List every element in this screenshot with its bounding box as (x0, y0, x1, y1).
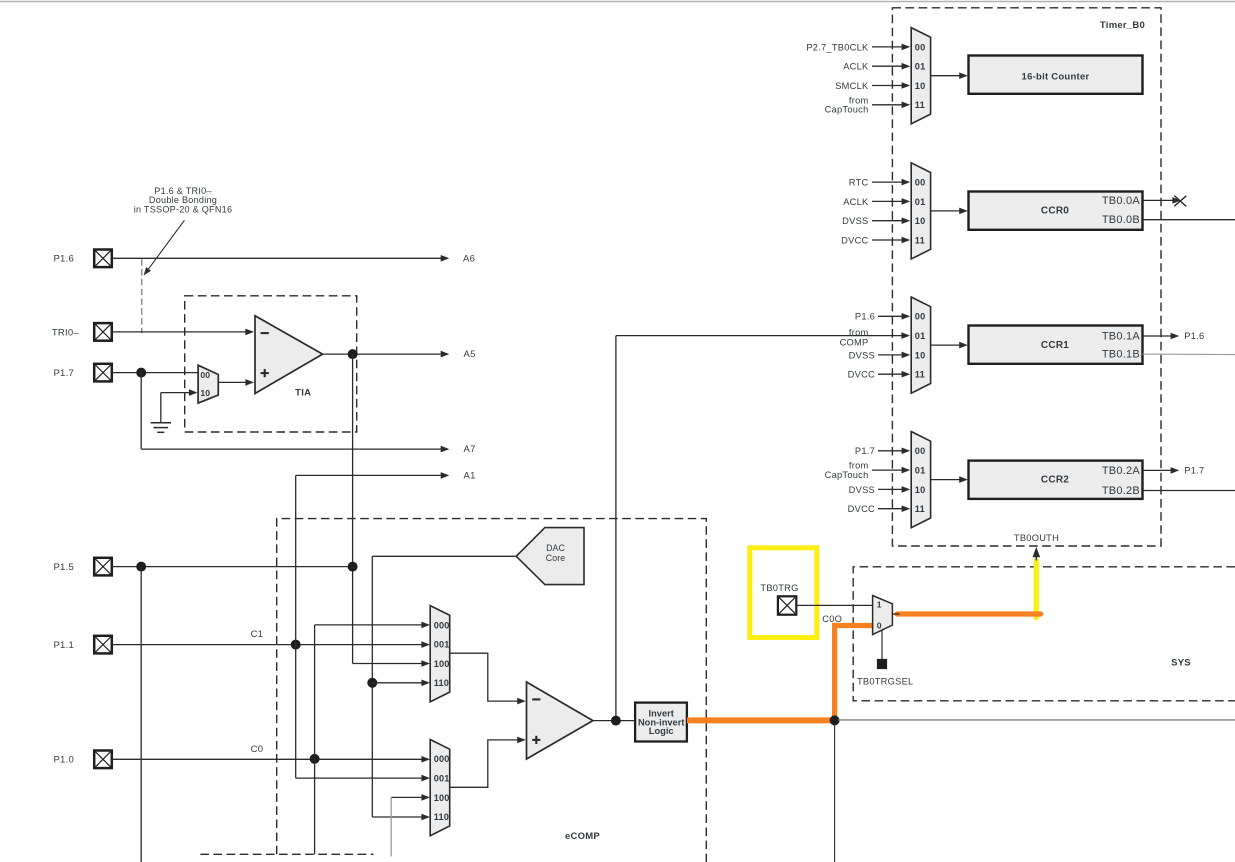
wire TB0.2B out (1143, 490, 1235, 492)
mux M1 TB0CLK select (911, 28, 930, 124)
svg-text:TB0.0A: TB0.0A (1102, 195, 1141, 207)
svg-text:1: 1 (877, 600, 882, 610)
svg-text:10: 10 (915, 485, 926, 495)
wire P1.6 to M3 (855, 312, 910, 322)
svg-text:SYS: SYS (1171, 658, 1191, 669)
block outline Timer_B0 (892, 8, 1161, 546)
svg-text:DVCC: DVCC (841, 235, 868, 245)
svg-text:TB0TRG: TB0TRG (760, 583, 798, 593)
svg-text:P1.5: P1.5 (53, 562, 74, 573)
comparator U5 (eCOMP) (527, 682, 593, 759)
junction P1.5/TIA net (348, 562, 358, 572)
svg-text:ACLK: ACLK (843, 62, 869, 72)
pin P1.5 (53, 558, 111, 576)
net label from COMP (840, 327, 869, 347)
junction comparator output (611, 716, 621, 726)
mux M4 CCR2 input select (911, 432, 930, 528)
mux U2 (TIA + input select) (198, 365, 218, 403)
annotation leader arrow (144, 220, 185, 275)
wire DVSS to M3 (849, 350, 911, 360)
wire DVCC to M4 (848, 504, 911, 514)
wire M3 to CCR1 (931, 342, 968, 349)
svg-text:C0: C0 (251, 744, 264, 755)
logic block Invert/Non-invert (635, 703, 687, 742)
block outline TIA (185, 296, 357, 432)
highlight orange wire C0O output (687, 626, 873, 724)
wire upper mux output to comparator - (450, 653, 526, 704)
svg-text:DVSS: DVSS (849, 485, 875, 495)
pin TB0TRG (760, 583, 798, 615)
svg-text:Logic: Logic (649, 726, 674, 736)
svg-text:10: 10 (915, 350, 926, 360)
svg-text:TRI0–: TRI0– (52, 327, 80, 338)
svg-text:01: 01 (915, 62, 926, 72)
wire TIA output to A5 (323, 351, 450, 358)
svg-text:DVCC: DVCC (848, 504, 875, 514)
junction C0O (830, 715, 840, 725)
wire C1 up to A1 (296, 472, 450, 644)
svg-text:0: 0 (877, 620, 882, 630)
svg-text:TB0.2B: TB0.2B (1102, 485, 1140, 497)
wire TIA output down to eCOMP mux (353, 354, 430, 667)
wire P1.7 to A7 (141, 373, 449, 453)
wire TB0.1B out (gray) (1143, 353, 1235, 356)
wire RTC to M2 (849, 178, 910, 188)
junction DAC net (367, 678, 377, 688)
svg-text:01: 01 (915, 197, 926, 207)
svg-text:DVSS: DVSS (849, 350, 875, 360)
DAC core (516, 528, 584, 585)
highlight yellow box around TB0TRG (750, 548, 817, 638)
wire M4 to CCR2 (931, 476, 968, 483)
annotation note: double bonding (134, 186, 233, 215)
svg-text:DAC: DAC (546, 543, 565, 553)
svg-text:DVSS: DVSS (842, 216, 868, 226)
svg-text:10: 10 (915, 81, 926, 91)
svg-text:11: 11 (915, 235, 925, 245)
wire M1 to counter (931, 72, 968, 79)
net label C0 (251, 744, 264, 755)
svg-text:SMCLK: SMCLK (835, 81, 869, 91)
wire TB0.1A out to P1.6 (1143, 331, 1205, 341)
svg-text:P1.6: P1.6 (855, 312, 875, 322)
svg-text:Timer_B0: Timer_B0 (1100, 20, 1145, 31)
svg-text:in TSSOP-20 & QFN16: in TSSOP-20 & QFN16 (134, 205, 233, 215)
highlight yellow wire to TB0OUTH (1034, 561, 1039, 618)
ground (151, 423, 171, 433)
svg-text:100: 100 (434, 793, 450, 803)
svg-text:TB0TRGSEL: TB0TRGSEL (857, 676, 914, 686)
svg-text:P1.7: P1.7 (53, 368, 74, 379)
svg-text:A6: A6 (463, 253, 475, 264)
wire TB0.2A out to P1.7 (1143, 466, 1205, 476)
svg-text:000: 000 (434, 620, 450, 630)
svg-text:CCR2: CCR2 (1041, 474, 1069, 485)
wire lower mux output to comparator + (450, 737, 526, 788)
svg-text:CCR1: CCR1 (1041, 340, 1069, 351)
svg-text:01: 01 (915, 466, 926, 476)
wire P1.7 to M4 (855, 446, 910, 456)
register CCR2 (969, 461, 1143, 499)
svg-text:C0O: C0O (822, 614, 842, 624)
svg-text:00: 00 (915, 178, 926, 188)
node A6 (463, 253, 475, 264)
pin P1.7 (53, 364, 111, 382)
wire M2 to CCR0 (931, 208, 968, 215)
mux U4 (eCOMP - input select) (430, 740, 450, 836)
svg-text:CapTouch: CapTouch (825, 104, 869, 114)
svg-text:P1.6: P1.6 (1184, 331, 1204, 341)
wire from CapTouch to M4 (825, 461, 911, 480)
wire C0O continues down (834, 726, 836, 862)
dashed bonding wire P1.6/TRI0- (141, 259, 143, 333)
net label C0O (822, 614, 842, 624)
wire gray stub to lower mux input 100 (391, 794, 430, 856)
svg-text:00: 00 (915, 446, 926, 456)
svg-text:TIA: TIA (295, 387, 311, 398)
svg-text:000: 000 (434, 754, 450, 764)
block outline (partial, bottom) (200, 853, 373, 855)
wire TB0.0A out (not bonded) (1143, 196, 1187, 207)
svg-text:TB0.2A: TB0.2A (1102, 465, 1141, 477)
wire C0 down (to block below) (314, 759, 316, 854)
junction C1 (291, 640, 301, 650)
wire comparator output (593, 720, 635, 722)
wire P2.7_TB0CLK to M1 (806, 42, 910, 52)
svg-text:10: 10 (200, 388, 210, 398)
wire DVCC to M2 (841, 235, 910, 245)
pin TRI0- (52, 323, 112, 341)
node A1 (464, 470, 476, 481)
svg-text:TB0OUTH: TB0OUTH (1014, 533, 1059, 543)
svg-text:11: 11 (915, 370, 925, 380)
svg-text:16-bit Counter: 16-bit Counter (1022, 71, 1090, 82)
highlight orange wire trigger mux output (897, 611, 1041, 616)
junction C0 (310, 754, 320, 764)
register CCR0 (969, 192, 1143, 230)
svg-text:DVCC: DVCC (848, 370, 875, 380)
junction P1.5 left (136, 562, 146, 572)
svg-text:110: 110 (434, 812, 449, 822)
svg-text:Core: Core (546, 553, 565, 563)
svg-text:00: 00 (200, 370, 210, 380)
svg-text:00: 00 (915, 312, 926, 322)
svg-text:RTC: RTC (849, 178, 869, 188)
wire C1 down to lower mux input 001 (296, 645, 430, 782)
wire from CapTouch to M1 (825, 95, 911, 114)
svg-text:A1: A1 (464, 470, 476, 481)
svg-text:CapTouch: CapTouch (825, 470, 869, 480)
wire DAC to upper mux input 110 (372, 680, 430, 687)
svg-text:CCR0: CCR0 (1041, 206, 1069, 217)
junction P1.7/A7 (136, 368, 146, 378)
op-amp U1 TIA (255, 316, 323, 394)
pin P1.1 (53, 636, 111, 654)
svg-text:A5: A5 (464, 349, 476, 360)
svg-text:001: 001 (434, 640, 450, 650)
wire TB0TRG to trigger mux input 1 (796, 604, 872, 606)
wire ACLK to M2 (843, 197, 910, 207)
svg-text:100: 100 (434, 659, 450, 669)
wire P1.5 (112, 566, 353, 568)
wire C0 up to upper mux input 000 (315, 622, 430, 759)
junction TIA output (348, 349, 358, 359)
svg-text:P1.1: P1.1 (53, 640, 74, 651)
wire trigger mux select (881, 630, 883, 659)
svg-text:11: 11 (915, 504, 925, 514)
svg-text:00: 00 (915, 42, 926, 52)
wire DVSS to M4 (849, 485, 911, 495)
pin P1.0 (53, 751, 111, 769)
wire C0O continues right (gray) (838, 719, 1235, 721)
wire mux to TIA non-inverting input (218, 379, 254, 386)
block outline eCOMP (277, 519, 707, 862)
mux U6 trigger select (873, 596, 893, 635)
svg-text:from: from (849, 327, 869, 337)
wire TRI0- to TIA inverting input (112, 329, 254, 336)
wire P1.1/C1 to eCOMP mux input 001 (112, 641, 430, 648)
wire P1.7 to mux (112, 372, 198, 374)
wire comparator output up to Timer (from COMP) (616, 332, 910, 720)
node A7 (464, 444, 476, 455)
wire DAC output (372, 556, 516, 820)
svg-text:01: 01 (915, 331, 926, 341)
svg-text:P1.6: P1.6 (53, 254, 74, 265)
mux U3 (eCOMP + input select) (430, 606, 450, 702)
wire TB0.0B out (1143, 219, 1235, 221)
svg-text:001: 001 (434, 774, 450, 784)
svg-text:110: 110 (434, 678, 449, 688)
svg-text:TB0.1B: TB0.1B (1102, 349, 1140, 361)
mux M2 CCR0 input select (911, 163, 930, 259)
wire DVSS to M2 (842, 216, 910, 226)
mux M3 CCR1 input select (911, 297, 930, 393)
wire SMCLK to M1 (835, 81, 910, 91)
select terminal TB0TRGSEL (857, 659, 914, 687)
svg-text:P1.7: P1.7 (1184, 466, 1204, 476)
svg-text:A7: A7 (464, 444, 476, 455)
node A5 (464, 349, 476, 360)
wire P1.5 down (to SAC below) (140, 567, 142, 862)
svg-text:P1.0: P1.0 (53, 755, 74, 766)
net label C1 (251, 629, 264, 640)
svg-text:ACLK: ACLK (843, 197, 869, 207)
svg-text:TB0.0B: TB0.0B (1102, 214, 1140, 226)
svg-text:P1.7: P1.7 (855, 446, 875, 456)
wire P1.0/C0 to eCOMP mux input 000 (112, 756, 430, 763)
svg-text:TB0.1A: TB0.1A (1102, 330, 1141, 342)
svg-text:11: 11 (915, 100, 925, 110)
wire ground to mux input 10 (161, 389, 198, 422)
svg-text:eCOMP: eCOMP (565, 831, 600, 842)
wire ACLK to M1 (843, 62, 910, 72)
wire trigger mux output stub (892, 613, 899, 615)
svg-text:10: 10 (915, 216, 926, 226)
wire DVCC to M3 (848, 370, 911, 380)
wire P1.6 to A6 (112, 255, 450, 262)
svg-text:COMP: COMP (840, 337, 869, 347)
svg-text:P2.7_TB0CLK: P2.7_TB0CLK (806, 42, 869, 52)
register CCR1 (969, 326, 1143, 364)
block outline SYS (853, 567, 1235, 701)
pin P1.6 (53, 250, 111, 268)
svg-text:C1: C1 (251, 629, 264, 640)
arrow into TB0OUTH (1033, 547, 1041, 561)
net label TB0OUTH (1014, 533, 1059, 543)
register 16-bit Counter (969, 56, 1143, 94)
